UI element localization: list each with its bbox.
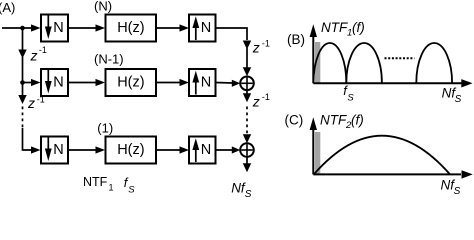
svg-text:S: S	[128, 185, 135, 196]
decimator box row3	[41, 137, 68, 164]
svg-text:N: N	[201, 74, 211, 90]
svg-text:-1: -1	[262, 38, 270, 48]
svg-text:N: N	[53, 74, 63, 90]
svg-text:(f): (f)	[352, 20, 365, 35]
svg-text:S: S	[455, 94, 462, 105]
wire trunk to row3	[23, 128, 33, 150]
svg-text:H(z): H(z)	[117, 74, 144, 90]
svg-text:NTF: NTF	[321, 20, 348, 35]
filter H(z) row2	[106, 69, 157, 96]
svg-text:(f): (f)	[351, 113, 364, 128]
plot B hump1	[314, 43, 347, 83]
svg-text:N: N	[201, 142, 211, 158]
upsampler box row2	[189, 69, 216, 96]
wire column to adder1	[246, 48, 248, 68]
wire row3 ds-to-filter	[68, 149, 97, 151]
svg-text:N: N	[53, 142, 63, 158]
svg-text:-1: -1	[262, 92, 270, 102]
svg-text:N: N	[201, 20, 211, 36]
wire row2 filter-to-us	[156, 82, 181, 84]
svg-text:H(z): H(z)	[117, 20, 144, 36]
svg-text:(N-1): (N-1)	[94, 52, 124, 67]
wire trunk row1-row2	[22, 28, 24, 50]
svg-text:1: 1	[109, 183, 114, 193]
svg-text:H(z): H(z)	[117, 142, 144, 158]
wire trunk row2-arrow	[22, 83, 24, 96]
plot B dotted continuation	[385, 57, 415, 59]
wire input row1	[2, 27, 32, 29]
wire row1 ds-to-filter	[68, 27, 97, 29]
adder A2	[240, 143, 254, 157]
adder A1	[240, 77, 254, 91]
plot B signal band	[315, 42, 320, 83]
wire row1 us-to-column	[216, 28, 248, 40]
wire output	[246, 157, 248, 164]
wire input row2	[23, 82, 33, 84]
wire column dotted	[246, 107, 248, 136]
filter H(z) row1	[106, 15, 157, 42]
upsampler box row1	[189, 15, 216, 42]
svg-text:z: z	[252, 93, 260, 109]
node junction row1	[20, 26, 25, 31]
plot B x-axis	[313, 82, 463, 84]
svg-text:NTF: NTF	[320, 113, 347, 128]
svg-text:S: S	[245, 189, 252, 199]
node junction row2	[20, 80, 25, 85]
plot C y-axis	[312, 127, 314, 174]
wire trunk dotted	[22, 107, 24, 130]
plot C x-axis	[313, 173, 461, 175]
plot B hump3	[416, 43, 452, 83]
plot B hump2	[346, 43, 382, 83]
svg-text:Nf: Nf	[231, 180, 246, 195]
plot C signal band	[315, 132, 320, 174]
wire row1 filter-to-us	[156, 27, 181, 29]
plot C arch NTF2	[314, 136, 450, 175]
wire row2 ds-to-filter	[68, 82, 97, 84]
svg-text:(1): (1)	[97, 121, 113, 136]
svg-text:S: S	[454, 186, 461, 197]
svg-text:z: z	[30, 48, 38, 64]
wire row2 us-to-adder1	[216, 82, 234, 85]
plot B y-axis	[312, 34, 314, 83]
svg-text:N: N	[53, 20, 63, 36]
upsampler box row3	[189, 137, 216, 164]
wire row3 filter-to-us	[156, 149, 181, 151]
wire row3 us-to-adder2	[216, 149, 234, 151]
svg-text:(A): (A)	[0, 0, 15, 15]
wire adder1 down	[246, 90, 248, 94]
svg-text:NTF: NTF	[83, 175, 108, 189]
svg-text:(C): (C)	[285, 113, 304, 128]
filter H(z) row3	[106, 137, 157, 164]
svg-text:-1: -1	[39, 45, 47, 55]
svg-text:(N): (N)	[94, 0, 112, 14]
decimator box row2	[41, 69, 68, 96]
decimator box row1	[41, 15, 68, 42]
svg-text:S: S	[347, 93, 354, 104]
svg-text:z: z	[252, 39, 260, 55]
svg-text:(B): (B)	[287, 32, 305, 47]
svg-text:z: z	[27, 95, 35, 111]
